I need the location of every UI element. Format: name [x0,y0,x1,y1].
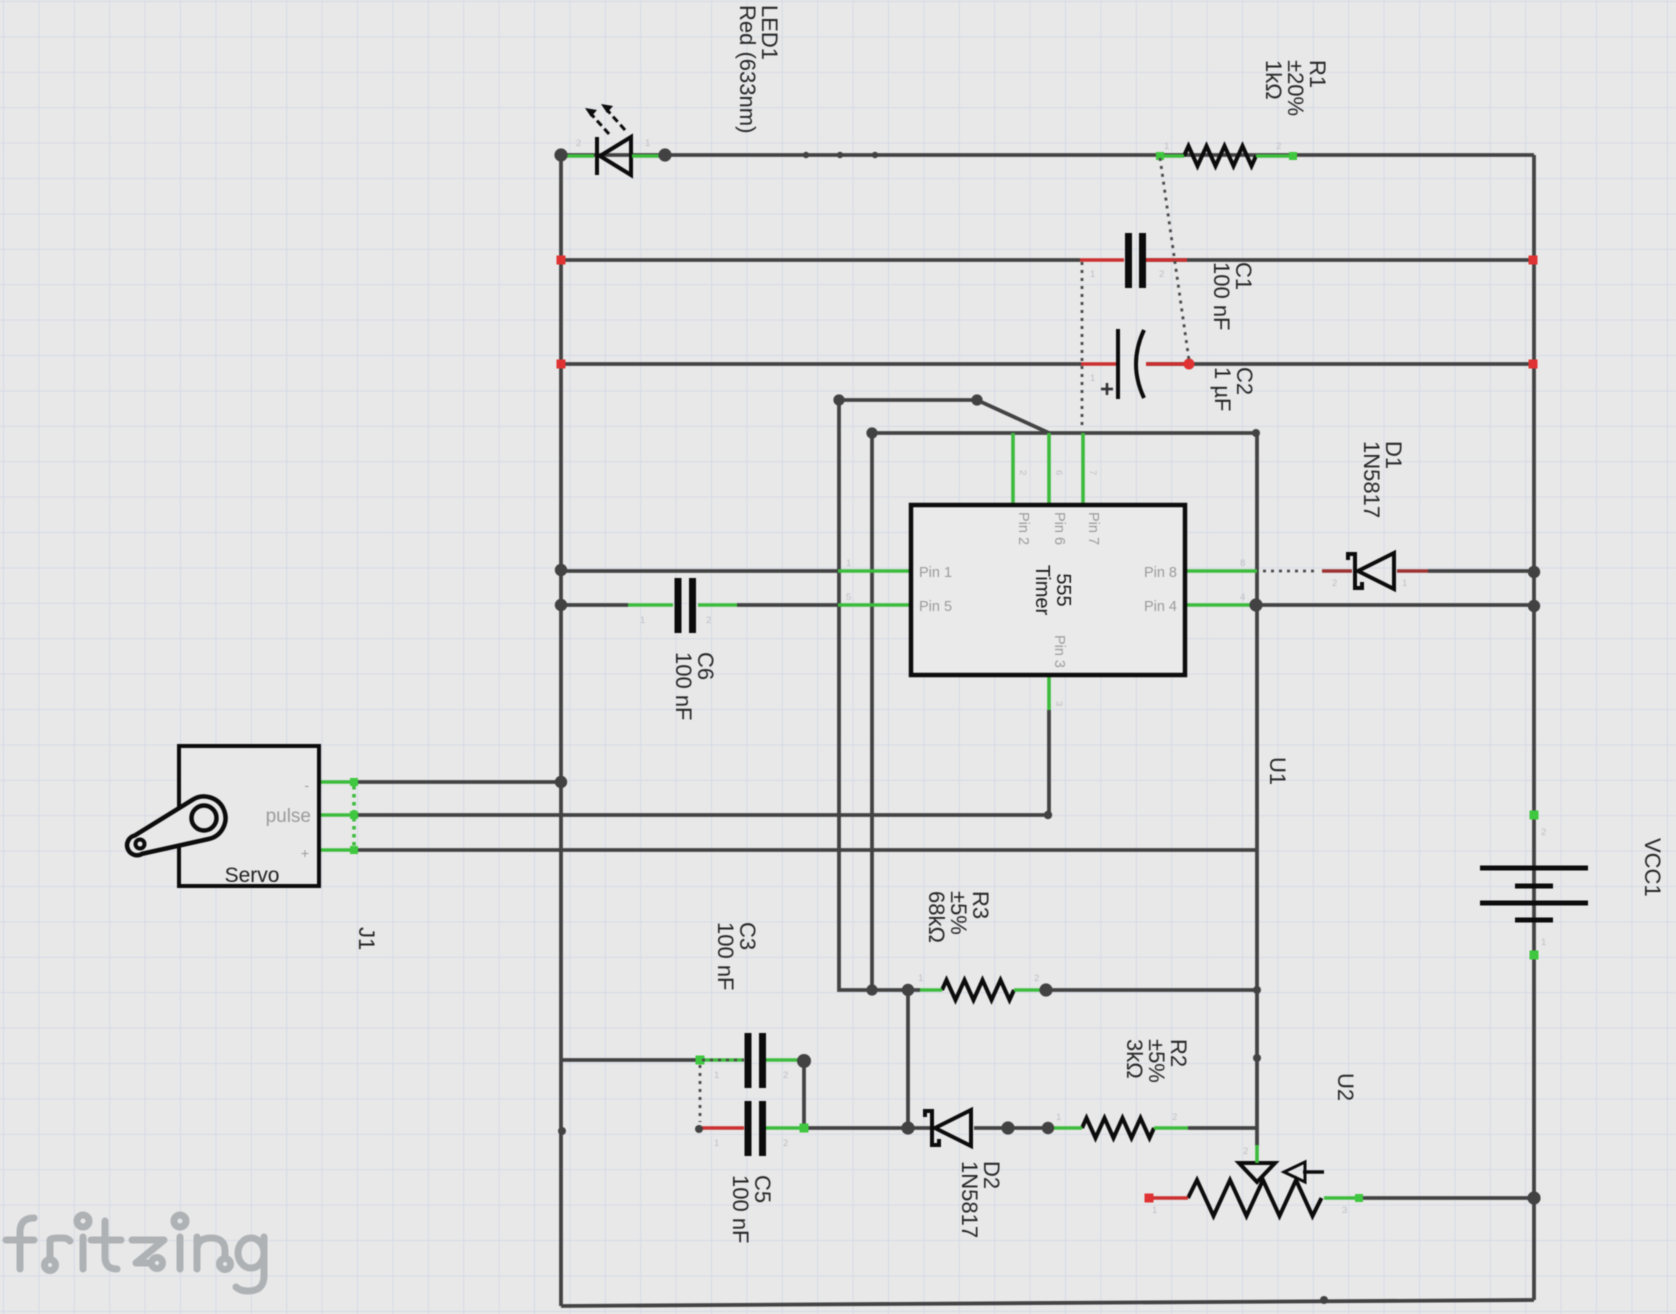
svg-text:68kΩ: 68kΩ [924,891,949,943]
svg-text:2: 2 [1159,269,1164,280]
svg-text:1N5817: 1N5817 [1359,441,1384,518]
svg-text:100 nF: 100 nF [1209,262,1234,331]
svg-text:1: 1 [640,615,645,626]
svg-text:5: 5 [846,592,851,603]
svg-text:2: 2 [1243,1146,1248,1157]
svg-text:U1: U1 [1265,757,1290,785]
svg-text:1: 1 [1402,578,1407,589]
svg-text:2: 2 [783,1138,788,1149]
svg-text:Pin 5: Pin 5 [919,599,952,615]
svg-text:2: 2 [1017,470,1028,475]
svg-text:J1: J1 [354,927,379,950]
svg-text:1: 1 [846,558,851,569]
svg-text:Pin 8: Pin 8 [1144,565,1177,581]
svg-text:1: 1 [714,1070,719,1081]
svg-text:Pin 7: Pin 7 [1085,512,1101,545]
svg-text:555: 555 [1052,573,1074,606]
svg-text:Servo: Servo [225,864,280,887]
svg-text:2: 2 [1332,578,1337,589]
svg-text:100 nF: 100 nF [713,922,738,991]
svg-text:U2: U2 [1333,1073,1358,1101]
svg-text:3: 3 [1053,701,1064,706]
svg-text:1: 1 [1164,141,1169,152]
svg-text:-: - [304,777,309,793]
svg-text:Red (633nm): Red (633nm) [735,5,760,133]
svg-text:1: 1 [645,138,650,149]
svg-text:3: 3 [1342,1205,1347,1216]
svg-text:1kΩ: 1kΩ [1261,60,1286,100]
svg-text:VCC1: VCC1 [1640,838,1665,897]
svg-text:2: 2 [1034,973,1039,984]
svg-text:100 nF: 100 nF [728,1175,753,1244]
svg-text:2: 2 [1276,141,1281,152]
svg-text:1: 1 [1541,937,1546,948]
svg-text:1N5817: 1N5817 [957,1161,982,1238]
svg-text:Pin 2: Pin 2 [1015,512,1031,545]
svg-text:100 nF: 100 nF [671,652,696,721]
svg-text:Pin 1: Pin 1 [919,565,952,581]
svg-text:1: 1 [1090,269,1095,280]
svg-text:2: 2 [783,1070,788,1081]
svg-text:Pin 3: Pin 3 [1051,635,1067,668]
svg-text:1: 1 [714,1138,719,1149]
svg-text:2: 2 [706,615,711,626]
svg-text:pulse: pulse [266,806,311,827]
svg-text:3kΩ: 3kΩ [1122,1039,1147,1079]
svg-text:2: 2 [1172,1112,1177,1123]
svg-text:2: 2 [1541,827,1546,838]
svg-text:4: 4 [1240,592,1245,603]
svg-text:1: 1 [1056,1112,1061,1123]
svg-text:Pin 4: Pin 4 [1144,599,1177,615]
svg-text:Timer: Timer [1031,565,1053,616]
svg-text:1: 1 [918,973,923,984]
svg-text:1: 1 [1090,373,1095,384]
svg-text:6: 6 [1053,470,1064,475]
svg-text:Pin 6: Pin 6 [1051,512,1067,545]
svg-text:1 µF: 1 µF [1210,367,1235,411]
svg-text:8: 8 [1240,558,1245,569]
svg-text:+: + [301,845,309,861]
svg-text:2: 2 [576,138,581,149]
svg-text:1: 1 [1152,1205,1157,1216]
svg-text:7: 7 [1087,470,1098,475]
